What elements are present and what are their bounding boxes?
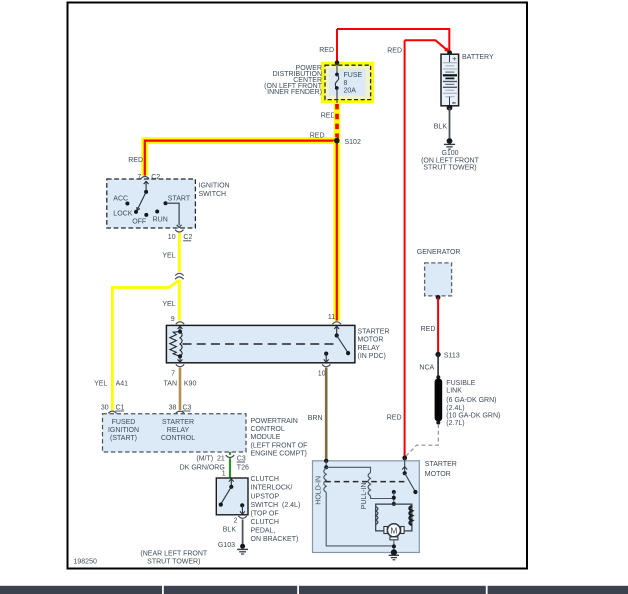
svg-text:RED: RED — [128, 157, 143, 164]
relay actuation dashed line — [183, 343, 338, 345]
svg-text:POWERTRAIN: POWERTRAIN — [251, 418, 298, 425]
wire branch to pull-in coil — [326, 467, 370, 472]
svg-text:K90: K90 — [184, 381, 197, 388]
svg-text:STRUT TOWER): STRUT TOWER) — [147, 558, 200, 565]
svg-text:9: 9 — [171, 316, 175, 323]
wire RED fuse-to-battery top run — [337, 29, 449, 50]
svg-text:CONTROL: CONTROL — [161, 435, 195, 442]
connector arc pin 10 — [175, 230, 183, 232]
svg-text:SWITCH: SWITCH — [199, 191, 227, 198]
svg-text:RELAY: RELAY — [358, 345, 381, 352]
svg-text:LOCK: LOCK — [113, 210, 132, 217]
label YEL A41 — [94, 381, 128, 388]
svg-text:TAN: TAN — [164, 381, 177, 388]
svg-text:RED: RED — [387, 47, 402, 54]
relay coil parallel resistor — [170, 332, 180, 357]
hold-in coil winding — [324, 468, 326, 492]
wire hold-in feed internal — [325, 461, 327, 468]
label POWERTRAIN CONTROL MODULE — [251, 418, 308, 457]
generator G box — [425, 263, 452, 296]
svg-text:(ON LEFT FRONT: (ON LEFT FRONT — [421, 157, 480, 164]
svg-text:10: 10 — [318, 370, 326, 377]
clutch switch pin 2 exit arrow — [240, 505, 245, 514]
motor brush right — [401, 527, 404, 534]
svg-text:(TOP OF: (TOP OF — [251, 510, 279, 517]
svg-text:IGNITION: IGNITION — [108, 427, 139, 434]
label FUSIBLE LINK — [446, 380, 500, 427]
svg-text:BATTERY: BATTERY — [462, 54, 494, 61]
contact OFF — [144, 213, 148, 217]
motor armature M — [387, 524, 400, 537]
relay contact exit arrow pin 10 — [324, 354, 329, 363]
svg-text:STARTER: STARTER — [162, 419, 194, 426]
svg-text:STRUT TOWER): STRUT TOWER) — [423, 165, 476, 172]
svg-text:FUSIBLE: FUSIBLE — [446, 380, 476, 387]
svg-text:(IN PDC): (IN PDC) — [358, 353, 386, 360]
clutch switch pin 1 arrow — [229, 479, 234, 487]
motor base block — [390, 537, 398, 540]
label CLUTCH INTERLOCK/UPSTOP SWITCH — [251, 476, 301, 543]
wire YEL connector to relay pin 9 — [178, 280, 181, 321]
power distribution center highlight box — [321, 62, 374, 103]
svg-text:(START): (START) — [110, 435, 137, 442]
starter solenoid dashed line — [325, 481, 407, 483]
svg-text:198250: 198250 — [74, 559, 97, 566]
ground G103 — [237, 544, 248, 554]
node fuse top junction — [335, 61, 340, 66]
svg-text:YEL: YEL — [162, 301, 175, 308]
svg-text:STARTER: STARTER — [358, 329, 390, 336]
connector C2 pin 10 label — [183, 234, 192, 241]
wire pull-in return — [371, 496, 394, 499]
node starter switch pivot — [403, 471, 407, 475]
fuse F8 20A element — [335, 63, 339, 103]
starter motor relay K1 box — [166, 325, 355, 362]
wire START contact to pin 10 — [166, 203, 182, 228]
svg-text:1: 1 — [222, 471, 226, 478]
svg-text:FUSE: FUSE — [344, 72, 363, 79]
svg-text:7: 7 — [171, 370, 175, 377]
node relay coil bottom — [178, 354, 182, 358]
svg-text:C3: C3 — [237, 455, 246, 462]
label TAN K90 — [164, 381, 197, 388]
svg-text:INNER FENDER): INNER FENDER) — [267, 89, 322, 96]
svg-text:CLUTCH: CLUTCH — [251, 476, 279, 483]
wire YEL branch to PCM pin 30 — [112, 280, 179, 410]
powertrain control module U1 box — [103, 414, 247, 452]
svg-text:C3: C3 — [183, 404, 192, 411]
svg-text:STARTER: STARTER — [425, 461, 457, 468]
wire DK GRN/ORG to clutch switch — [229, 458, 231, 477]
label POWER DISTRIBUTION CENTER — [264, 65, 323, 96]
svg-text:UPSTOP: UPSTOP — [251, 493, 280, 500]
svg-text:LINK: LINK — [446, 388, 462, 395]
svg-text:MOTOR: MOTOR — [358, 337, 384, 344]
svg-text:S113: S113 — [444, 353, 460, 360]
label FUSED IGNITION (START) — [108, 419, 139, 442]
ground G100 — [444, 138, 455, 149]
node battery positive junction — [447, 50, 452, 55]
relay coil winding — [180, 332, 182, 357]
clutch interlock switch S2 box — [216, 478, 248, 515]
svg-text:C1: C1 — [116, 404, 125, 411]
node pull-in junction — [392, 496, 396, 500]
label (M/T) 21 — [196, 455, 225, 462]
node fusible link top — [436, 375, 440, 379]
label G100 location — [421, 150, 480, 171]
svg-text:CLUTCH: CLUTCH — [251, 519, 279, 526]
wire RED highlighted S102 to ignition switch — [145, 141, 337, 176]
label STARTER RELAY CONTROL — [161, 419, 195, 442]
footer table bar — [0, 586, 628, 594]
svg-text:PULL-IN: PULL-IN — [361, 482, 368, 509]
svg-text:PEDAL,: PEDAL, — [251, 527, 276, 534]
connector C2 pin 7 label — [151, 174, 162, 181]
svg-text:11: 11 — [328, 314, 335, 321]
node S102 — [334, 138, 340, 144]
starter motor M1 box — [313, 461, 420, 553]
label IGNITION SWITCH — [199, 183, 230, 198]
arrowhead at battery positive — [444, 47, 449, 52]
svg-text:30: 30 — [101, 404, 109, 411]
motor field coil right — [410, 506, 412, 525]
contact ACC — [125, 202, 129, 206]
clutch switch arm — [221, 487, 231, 504]
svg-text:INTERLOCK/: INTERLOCK/ — [251, 485, 293, 492]
relay switch arm — [337, 336, 348, 353]
wire dashed fusible link to starter feed — [405, 424, 438, 457]
border frame — [68, 3, 528, 569]
relay coil exit arrow pin 7 — [178, 356, 183, 362]
node clutch switch contact pin 2 — [240, 503, 244, 507]
svg-text:20A: 20A — [344, 88, 357, 95]
wire YEL pin 10 down to inline connector — [178, 233, 181, 272]
svg-text:CONTROL: CONTROL — [251, 426, 285, 433]
inline connector on YEL wire — [175, 273, 183, 279]
svg-text:10: 10 — [168, 234, 176, 241]
svg-text:C2: C2 — [183, 234, 192, 241]
connector arc pin 11 — [333, 322, 341, 324]
label DK GRN/ORG T26 — [180, 464, 249, 471]
wire NCA S113 to fusible link — [437, 355, 439, 377]
motor brush left — [384, 527, 387, 534]
node motor ground junction — [392, 544, 396, 548]
svg-text:M: M — [390, 525, 397, 535]
wire TAN relay pin 7 to PCM pin 38 — [179, 368, 182, 410]
wire RED highlighted S102 to relay pin 11 — [333, 141, 340, 321]
wire RED vertical feed to starter motor — [404, 40, 406, 456]
svg-text:RED: RED — [387, 415, 402, 422]
svg-text:YEL: YEL — [162, 253, 175, 260]
node relay switch pivot — [335, 333, 339, 337]
svg-text:(2.4L): (2.4L) — [446, 405, 464, 412]
contact START — [164, 201, 168, 205]
wire BRN relay pin 10 to starter motor — [325, 368, 328, 461]
fusible link element — [435, 379, 443, 422]
connector arc pin 7 — [141, 177, 149, 179]
ignition switch S1 box — [107, 179, 196, 228]
contact LOCK — [134, 210, 138, 214]
relay switch pin 11 arrow — [334, 326, 339, 335]
motor field coil left — [376, 507, 378, 525]
connector arc pin 38 — [176, 411, 184, 413]
svg-text:DK GRN/ORG: DK GRN/ORG — [180, 464, 225, 471]
svg-text:NCA: NCA — [419, 365, 434, 372]
connector C3 pin 38 label — [182, 404, 191, 411]
svg-text:GENERATOR: GENERATOR — [417, 249, 461, 256]
node battery negative terminal — [447, 105, 453, 111]
wire BLK clutch switch to G103 — [242, 520, 244, 545]
svg-text:YEL: YEL — [94, 381, 107, 388]
connector arc relay pin 7 — [176, 364, 184, 366]
node starter switch contact — [392, 490, 396, 494]
svg-text:IGNITION: IGNITION — [199, 183, 230, 190]
wire BLK battery to G100 — [449, 108, 451, 139]
svg-text:G103: G103 — [218, 542, 235, 549]
svg-text:BLK: BLK — [434, 123, 448, 130]
starter switch feed wire — [402, 458, 407, 473]
svg-text:RED: RED — [421, 326, 436, 333]
connector arc pin 2 — [238, 516, 246, 518]
svg-text:(M/T): (M/T) — [196, 455, 213, 462]
svg-text:MOTOR: MOTOR — [425, 471, 451, 478]
relay coil entry arrow pin 9 — [178, 326, 183, 332]
svg-text:21: 21 — [217, 455, 225, 462]
node starter hold-in feed — [324, 459, 328, 463]
svg-text:FUSED: FUSED — [112, 419, 136, 426]
wire hold-in return to ground — [326, 492, 394, 546]
node generator output — [436, 295, 441, 300]
svg-text:G100: G100 — [441, 150, 458, 157]
node hold-in branch junction — [324, 465, 328, 469]
ignition switch wiper arm — [137, 181, 149, 210]
svg-text:ENGINE COMPT): ENGINE COMPT) — [251, 450, 307, 457]
wire RED into fuse — [336, 29, 338, 62]
starter switch arm — [405, 473, 416, 491]
svg-text:RUN: RUN — [153, 216, 168, 223]
node relay switch arm end — [346, 351, 350, 355]
connector arc pin 21 — [226, 455, 234, 457]
svg-text:38: 38 — [169, 404, 177, 411]
node starter switch arm end — [413, 490, 417, 494]
svg-text:RELAY: RELAY — [167, 427, 190, 434]
svg-text:8: 8 — [344, 80, 348, 87]
label STARTER MOTOR — [425, 461, 457, 478]
svg-text:BLK: BLK — [223, 526, 237, 533]
svg-text:(6 GA-DK GRN): (6 GA-DK GRN) — [446, 397, 496, 404]
svg-text:RED: RED — [321, 112, 336, 119]
motor field frame — [376, 504, 412, 531]
svg-text:START: START — [168, 195, 191, 202]
node relay switch contact pin 10 — [324, 352, 328, 356]
label STARTER MOTOR RELAY (IN PDC) — [358, 329, 390, 360]
svg-text:(NEAR LEFT FRONT: (NEAR LEFT FRONT — [140, 551, 207, 558]
ground starter motor case — [389, 549, 399, 559]
svg-text:RED: RED — [310, 133, 325, 140]
svg-text:ACC: ACC — [113, 195, 128, 202]
wire RED generator to S113 — [437, 297, 439, 352]
svg-text:2: 2 — [234, 517, 238, 524]
svg-text:OFF: OFF — [132, 219, 146, 226]
svg-text:HOLD-IN: HOLD-IN — [315, 476, 322, 505]
node clutch switch arm end — [219, 503, 223, 507]
node motor field top — [392, 502, 396, 506]
connector arc pin 30 — [108, 411, 116, 413]
wire RED highlighted fuse to S102 — [334, 103, 340, 140]
node relay coil top — [178, 330, 182, 334]
svg-text:S102: S102 — [345, 139, 361, 146]
svg-text:RED: RED — [319, 47, 334, 54]
pull-in coil winding — [368, 473, 370, 496]
svg-text:BRN: BRN — [308, 415, 323, 422]
label G103 location — [140, 551, 207, 566]
connector C1 pin 30 label — [115, 404, 124, 411]
connector C3 pin 21 label — [237, 455, 246, 462]
connector arc pin 9 — [176, 322, 184, 324]
node fusible link bottom — [436, 421, 440, 425]
svg-text:(10 GA-DK GRN): (10 GA-DK GRN) — [446, 412, 500, 419]
battery B1 — [441, 54, 459, 106]
node starter feed junction — [402, 456, 407, 461]
wire motor to ground — [393, 540, 395, 550]
contact RUN — [155, 210, 159, 214]
wire DK GRN/ORG stub from PCM pin 21 — [229, 452, 231, 455]
wire contact to motor — [393, 492, 395, 504]
svg-text:(LEFT FRONT OF: (LEFT FRONT OF — [251, 442, 308, 449]
svg-text:MODULE: MODULE — [251, 434, 281, 441]
node clutch switch pivot — [229, 485, 233, 489]
svg-text:+: + — [452, 54, 457, 63]
svg-text:A41: A41 — [116, 381, 129, 388]
svg-text:SWITCH (2.4L): SWITCH (2.4L) — [251, 502, 301, 509]
svg-text:T26: T26 — [237, 464, 249, 471]
svg-text:(2.7L): (2.7L) — [446, 420, 464, 427]
node S113 — [435, 352, 440, 357]
wire RED battery-to-starter feed run — [405, 40, 448, 50]
svg-text:ON BRACKET): ON BRACKET) — [251, 536, 299, 543]
connector arc relay pin 10 — [322, 364, 330, 366]
label FUSE 8 20A — [344, 72, 363, 95]
